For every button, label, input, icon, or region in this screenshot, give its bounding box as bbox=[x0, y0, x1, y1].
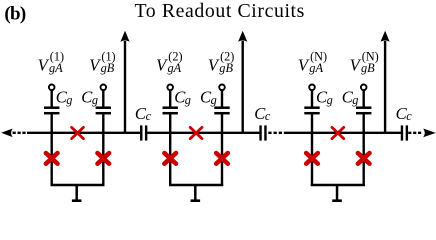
svg-text:To Readout Circuits: To Readout Circuits bbox=[135, 0, 305, 22]
svg-text:V: V bbox=[208, 56, 220, 75]
svg-text:g: g bbox=[185, 93, 191, 107]
label Cg (branch A, cell 3) bbox=[316, 88, 333, 107]
right continuation arrow (dashed, to next cell) bbox=[408, 129, 436, 138]
wire: branch A upper (terminal to Cg) cell 2 bbox=[169, 90, 171, 107]
svg-text:(1): (1) bbox=[50, 49, 64, 63]
terminal circle VgA cell 2 bbox=[167, 85, 173, 91]
label Cg (branch B, cell 1) bbox=[81, 88, 98, 107]
wire: branch A lower (Cg through bus to loop) cell 1 bbox=[51, 113, 53, 186]
gate capacitor Cg (branch B, cell 3) bbox=[356, 108, 371, 114]
wire: branch A upper (terminal to Cg) cell 1 bbox=[51, 90, 53, 107]
svg-text:(N): (N) bbox=[362, 49, 379, 63]
terminal circle VgB cell 3 bbox=[361, 85, 367, 91]
wire: branch B upper (terminal to Cg) cell 1 bbox=[102, 90, 104, 107]
coupling capacitor Cc3 bbox=[402, 125, 407, 140]
Josephson junction (red X) on branch A, cell 1 bbox=[46, 153, 58, 164]
gate capacitor Cg (branch B, cell 1) bbox=[96, 108, 111, 114]
svg-text:V: V bbox=[156, 56, 168, 75]
Josephson junction (red X) on branch B, cell 3 bbox=[358, 153, 370, 164]
Josephson junction (red X) on branch B, cell 2 bbox=[216, 153, 228, 164]
svg-text:g: g bbox=[352, 93, 358, 107]
Josephson junction (red X) on branch A, cell 3 bbox=[306, 153, 318, 164]
label VgA(2) cell 2 bbox=[156, 49, 182, 75]
wire: branch A lower (Cg through bus to loop) cell 2 bbox=[169, 113, 171, 186]
wire: bottom loop cell 3 bbox=[311, 184, 365, 186]
svg-text:g: g bbox=[92, 93, 98, 107]
readout line with arrow, cell 1 bbox=[120, 31, 129, 133]
wire: main bus segment 3 bbox=[287, 132, 401, 134]
terminal circle VgA cell 3 bbox=[309, 85, 315, 91]
Josephson junction (red X) on bus between islands, cell 1 bbox=[72, 127, 84, 138]
svg-text:c: c bbox=[146, 109, 152, 123]
Josephson junction (red X) on bus between islands, cell 3 bbox=[332, 127, 344, 138]
svg-text:(b): (b) bbox=[4, 3, 25, 24]
wire: main bus segment 1 bbox=[27, 132, 140, 134]
label Cg (branch A, cell 2) bbox=[174, 88, 191, 107]
readout line with arrow, cell 2 bbox=[238, 31, 247, 133]
gate capacitor Cg (branch A, cell 3) bbox=[304, 108, 319, 114]
gate capacitor Cg (branch A, cell 2) bbox=[163, 108, 178, 114]
left continuation arrow (dashed, to previous cell) bbox=[1, 129, 27, 138]
wire: bottom loop cell 1 bbox=[51, 184, 105, 186]
gate capacitor Cg (branch A, cell 1) bbox=[44, 108, 59, 114]
svg-text:c: c bbox=[265, 109, 271, 123]
svg-text:(2): (2) bbox=[220, 49, 234, 63]
label VgA(N) cell 3 bbox=[298, 49, 327, 75]
svg-text:(2): (2) bbox=[168, 49, 182, 63]
label VgB(2) cell 2 bbox=[208, 49, 234, 75]
label Cc2 bbox=[254, 104, 271, 123]
wire: branch B upper (terminal to Cg) cell 2 bbox=[221, 90, 223, 107]
readout line with arrow, cell 3 bbox=[381, 31, 390, 133]
label VgB(1) cell 1 bbox=[89, 49, 115, 75]
wire: branch A upper (terminal to Cg) cell 3 bbox=[311, 90, 313, 107]
svg-text:(N): (N) bbox=[310, 49, 327, 63]
wire: main bus segment 2 bbox=[147, 132, 259, 134]
Josephson junction (red X) on branch B, cell 1 bbox=[98, 153, 110, 164]
wire: dashed bus continuation between cell 2 and cell N bbox=[268, 132, 287, 134]
svg-text:V: V bbox=[298, 56, 310, 75]
label Cc3 bbox=[396, 104, 413, 123]
gate capacitor Cg (branch B, cell 2) bbox=[214, 108, 229, 114]
ground symbol cell 3 bbox=[332, 185, 342, 202]
svg-text:(1): (1) bbox=[101, 49, 115, 63]
terminal circle VgB cell 2 bbox=[219, 85, 225, 91]
svg-text:V: V bbox=[89, 56, 101, 75]
Josephson junction (red X) on bus between islands, cell 2 bbox=[190, 127, 202, 138]
terminal circle VgB cell 1 bbox=[101, 85, 107, 91]
wire: branch B lower (Cg through bus to loop) cell 1 bbox=[102, 113, 104, 186]
svg-text:g: g bbox=[327, 93, 333, 107]
label Cg (branch B, cell 2) bbox=[200, 88, 217, 107]
wire: branch A lower (Cg through bus to loop) cell 3 bbox=[311, 113, 313, 186]
svg-text:V: V bbox=[350, 56, 362, 75]
wire: branch B lower (Cg through bus to loop) cell 3 bbox=[363, 113, 365, 186]
wire: bottom loop cell 2 bbox=[169, 184, 223, 186]
label Cg (branch A, cell 1) bbox=[56, 88, 73, 107]
label Cg (branch B, cell 3) bbox=[342, 88, 359, 107]
terminal circle VgA cell 1 bbox=[49, 85, 55, 91]
ground symbol cell 1 bbox=[72, 185, 82, 202]
label VgB(N) cell 3 bbox=[350, 49, 379, 75]
wire: branch B upper (terminal to Cg) cell 3 bbox=[363, 90, 365, 107]
svg-text:V: V bbox=[38, 56, 50, 75]
ground symbol cell 2 bbox=[191, 185, 201, 202]
svg-text:g: g bbox=[66, 93, 72, 107]
label VgA(1) cell 1 bbox=[38, 49, 64, 75]
Josephson junction (red X) on branch A, cell 2 bbox=[164, 153, 176, 164]
coupling capacitor Cc1 bbox=[141, 125, 146, 140]
svg-text:c: c bbox=[406, 109, 412, 123]
coupling capacitor Cc2 bbox=[261, 125, 266, 140]
svg-text:g: g bbox=[211, 93, 217, 107]
wire: branch B lower (Cg through bus to loop) cell 2 bbox=[221, 113, 223, 186]
label Cc1 bbox=[135, 104, 152, 123]
